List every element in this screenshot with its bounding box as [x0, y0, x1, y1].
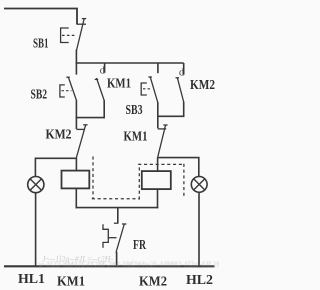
wire: SB1 to bus A	[75, 50, 77, 64]
wire: KM1 aux upper stub	[104, 63, 106, 73]
svg-text:KM1: KM1	[57, 274, 85, 289]
wire: bus B	[76, 117, 105, 119]
lamp HL1	[28, 177, 44, 193]
wire: KM1 NC to KM2 coil	[157, 158, 159, 172]
wire: branch to lamp HL1	[35, 158, 76, 176]
wire: SB2 lower to bus B	[75, 100, 77, 118]
svg-text:HL2: HL2	[186, 273, 213, 288]
svg-text:KM1: KM1	[107, 75, 131, 90]
wire: KM1 coil to join	[75, 188, 77, 208]
svg-text:FR: FR	[133, 237, 146, 252]
wire: KM1 NC upper drop	[157, 116, 159, 128]
wire: join down to FR	[117, 208, 119, 223]
lamp HL2	[191, 177, 207, 193]
svg-text:d: d	[179, 68, 184, 79]
svg-text:KM2: KM2	[46, 126, 72, 141]
svg-text:KM2: KM2	[139, 274, 167, 289]
wire: FR to bottom rail	[116, 252, 118, 267]
coil KM2	[142, 171, 171, 189]
svg-text:SB2: SB2	[31, 87, 48, 102]
svg-text:d: d	[100, 66, 105, 77]
wire: KM2 coil to join	[157, 189, 159, 208]
wire: KM2 aux upper drop from bus A	[183, 63, 185, 75]
wire: top supply rail L	[4, 9, 77, 25]
svg-text:w-1l22-#M4JL4T2M-2#4-1M2#4w2l-: w-1l22-#M4JL4T2M-2#4-1M2#4w2l-4JM#2-1l2a…	[38, 260, 219, 269]
mechanical interlock dashed link	[92, 157, 185, 200]
wire: bus C	[157, 115, 184, 117]
svg-text:SB3: SB3	[126, 102, 143, 117]
svg-text:HL1: HL1	[18, 272, 45, 287]
wire: SB3 upper stub	[157, 63, 159, 73]
wire: coil join bus	[76, 207, 159, 209]
wire: HL2 to bottom rail	[198, 192, 200, 266]
coil KM1	[62, 171, 90, 189]
svg-text:KM2: KM2	[190, 77, 215, 92]
wire: SB2 upper drop	[75, 63, 77, 75]
wire: branch to lamp HL2	[158, 158, 199, 177]
contact KM2 interlock (NC)	[76, 125, 87, 158]
watermark	[38, 255, 225, 269]
contact SB3 (NO pushbutton)	[141, 77, 158, 102]
wire: KM2 NC to KM1 coil	[75, 158, 77, 171]
wire: bottom supply rail N	[4, 265, 215, 267]
svg-text:KM1: KM1	[124, 129, 148, 144]
wire: bus A	[76, 62, 184, 64]
svg-text:SB1: SB1	[33, 35, 49, 50]
wire: KM2 NC upper drop	[75, 117, 77, 129]
pushbutton SB1 (NC)	[61, 19, 87, 50]
wire: SB3 lower to bus C	[157, 102, 159, 117]
contact KM1 auxiliary (NO)	[95, 78, 105, 101]
contact SB2 (NO pushbutton)	[60, 77, 77, 101]
wire: KM1 aux lower to bus B	[103, 100, 105, 118]
thermal overload relay FR (NC contact)	[103, 223, 126, 252]
wire: HL1 to bottom rail	[35, 193, 37, 266]
wire: KM2 aux lower to bus C	[183, 102, 185, 117]
contact KM2 auxiliary (NO)	[176, 78, 184, 102]
contact KM1 interlock (NC)	[158, 125, 168, 158]
